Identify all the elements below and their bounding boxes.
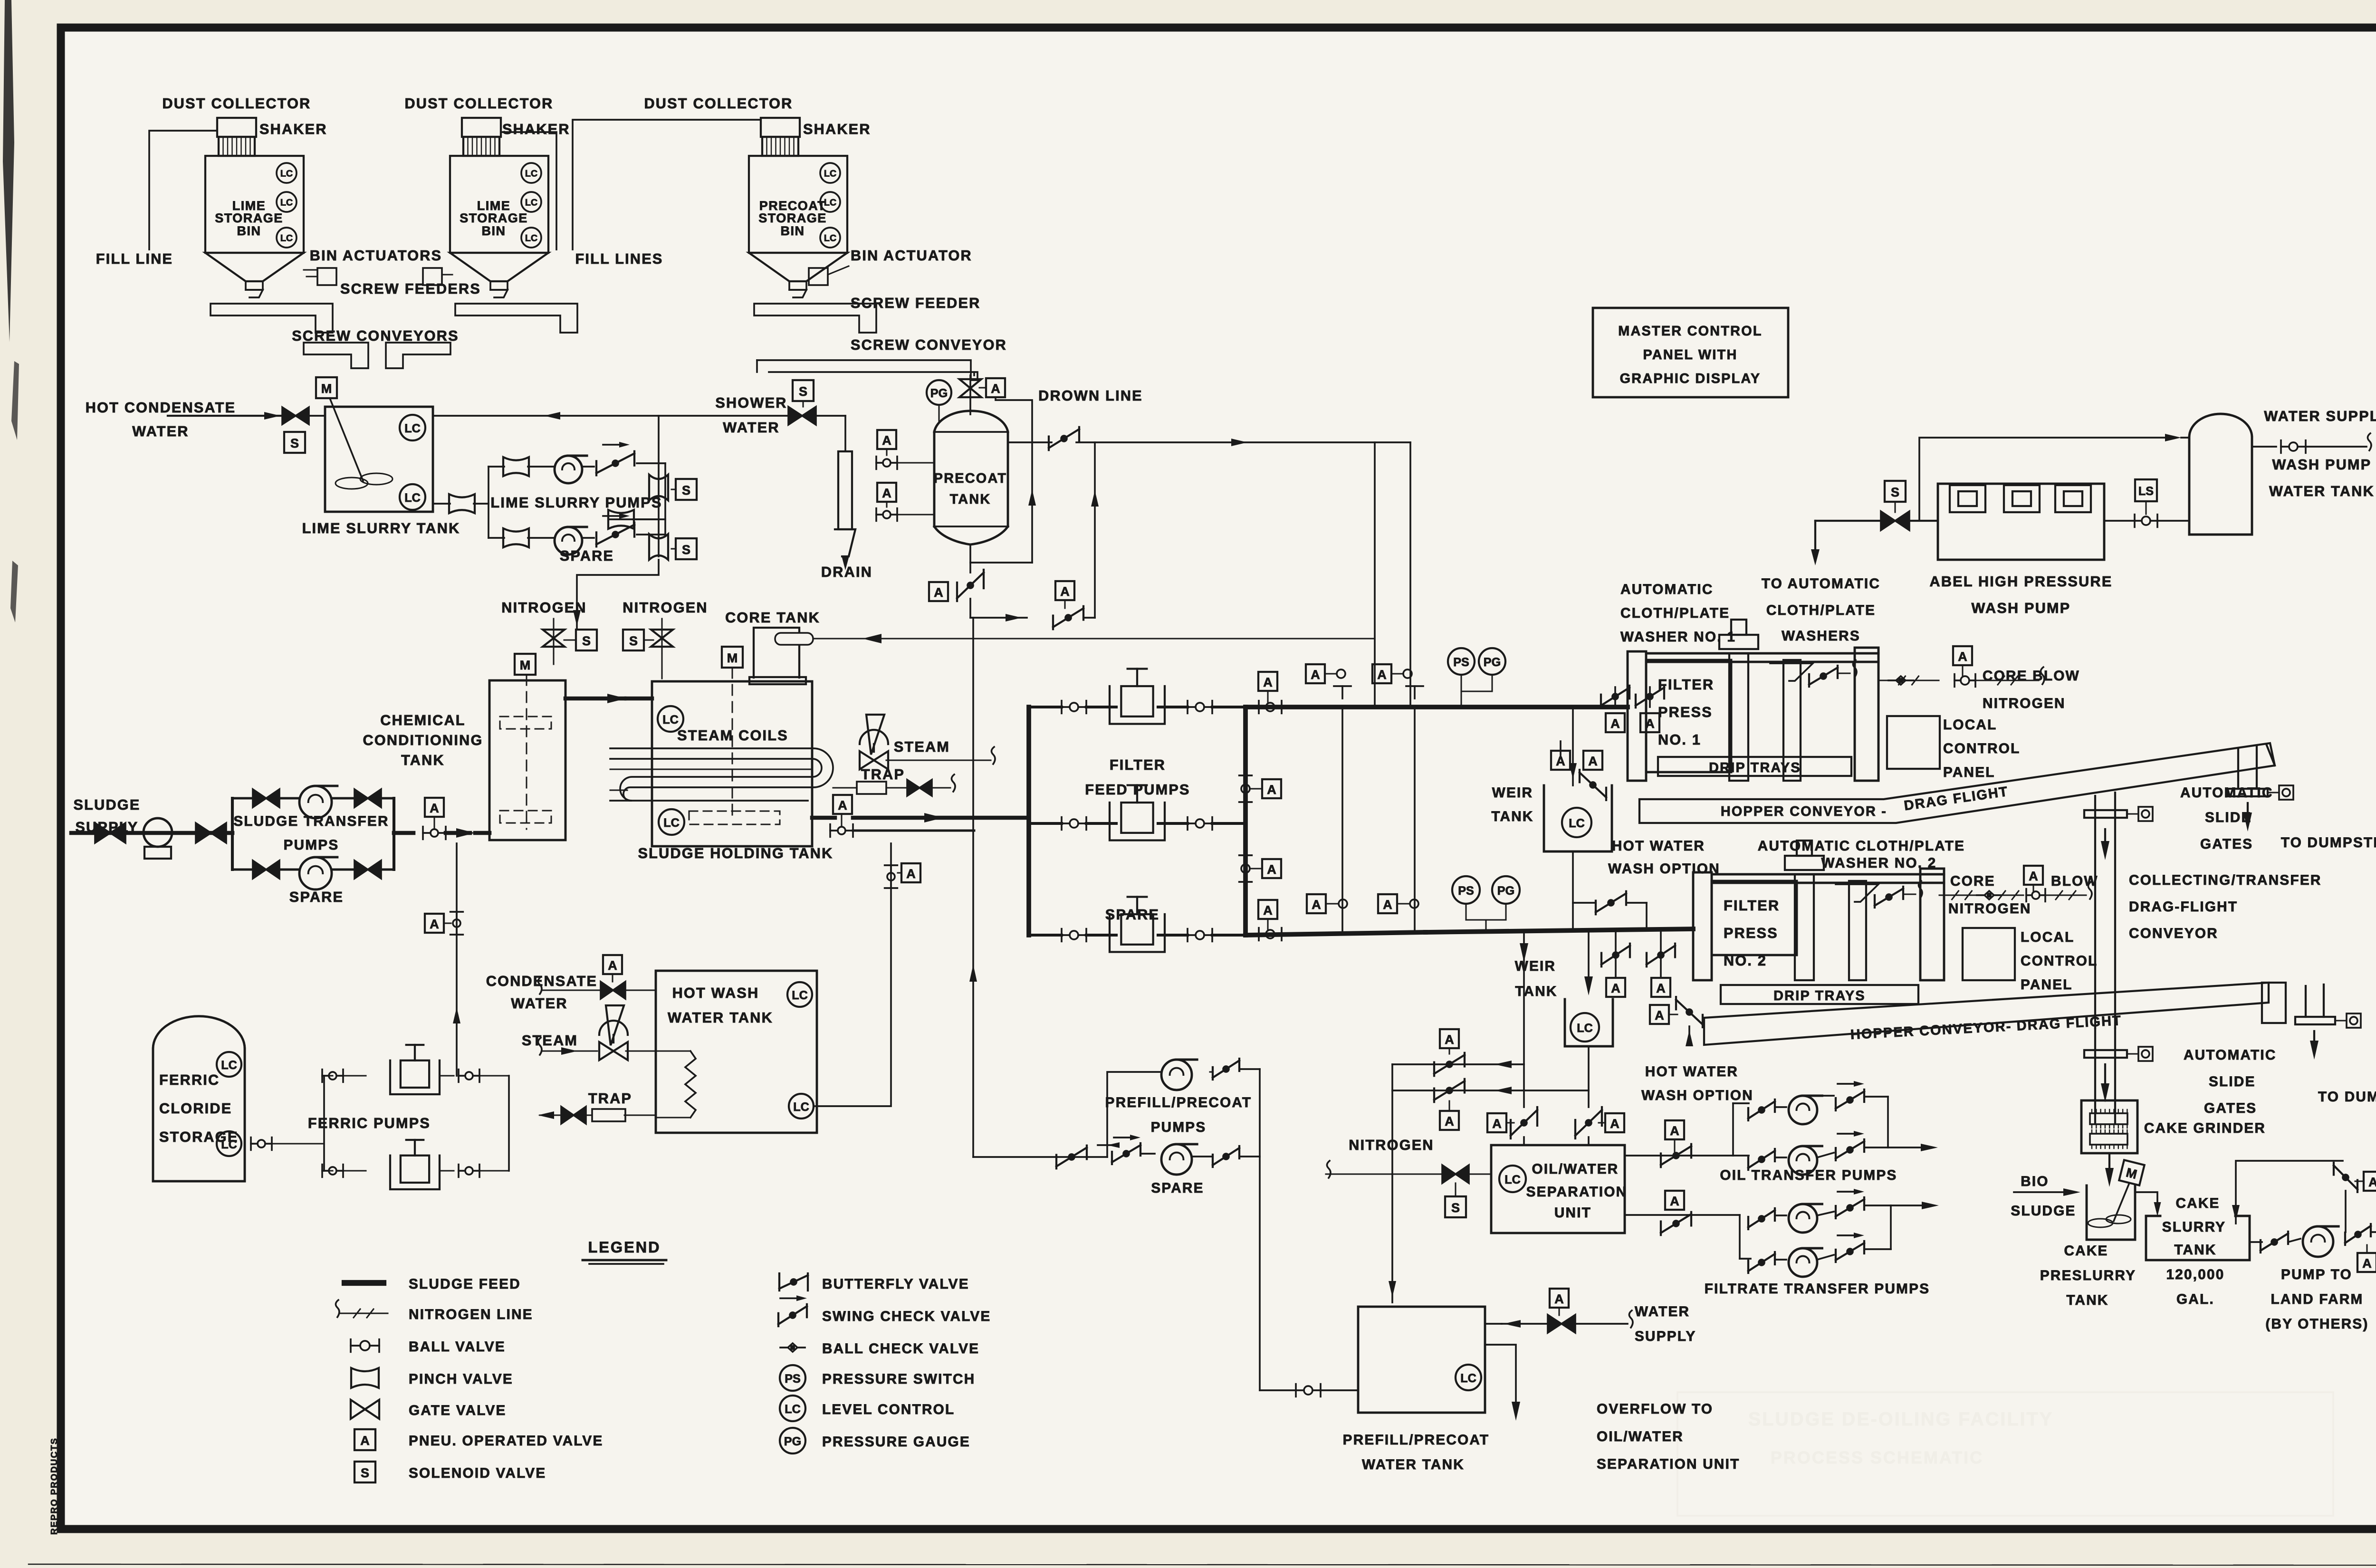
svg-text:TANK: TANK <box>2174 1242 2216 1258</box>
svg-text:A: A <box>2029 869 2038 883</box>
hot wash LC top <box>787 982 812 1007</box>
holding tank LC bottom <box>659 809 684 835</box>
svg-text:A: A <box>1958 650 1967 664</box>
oil water separation unit <box>1491 1145 1625 1233</box>
legend ball valve <box>350 1339 352 1352</box>
svg-text:PANEL: PANEL <box>2021 977 2073 993</box>
lime slurry tank <box>325 407 433 512</box>
svg-text:NITROGEN LINE: NITROGEN LINE <box>409 1307 533 1322</box>
svg-text:CLORIDE: CLORIDE <box>159 1100 232 1117</box>
conditioning tank mixer M <box>515 654 536 675</box>
svg-text:SPARE: SPARE <box>289 889 344 905</box>
core blow nitrogen line 2 <box>1939 894 1984 896</box>
svg-text:NITROGEN: NITROGEN <box>1349 1137 1434 1153</box>
discharge to feed pumps thick line <box>860 817 927 818</box>
svg-text:LC: LC <box>663 816 680 830</box>
svg-text:STEAM: STEAM <box>522 1033 578 1049</box>
svg-text:CORE TANK: CORE TANK <box>725 610 820 626</box>
ghost title block <box>1677 1392 2333 1516</box>
svg-text:A: A <box>2362 1256 2372 1271</box>
transfer arrow to holding tank <box>565 697 624 701</box>
sludge holding tank <box>652 681 812 846</box>
svg-text:S: S <box>361 1466 369 1480</box>
svg-text:NO. 2: NO. 2 <box>1724 953 1767 969</box>
svg-text:BIN ACTUATOR: BIN ACTUATOR <box>851 248 972 264</box>
svg-text:NITROGEN: NITROGEN <box>1983 696 2066 711</box>
svg-text:WATER SUPPLY: WATER SUPPLY <box>2264 408 2376 424</box>
svg-text:PS: PS <box>785 1372 801 1386</box>
hot condensate gate valve <box>282 407 309 424</box>
svg-text:A: A <box>1554 1292 1564 1306</box>
transfer pumps discharge header <box>393 798 395 870</box>
slurry pump suction <box>2250 1241 2262 1243</box>
svg-text:OIL/WATER: OIL/WATER <box>1532 1161 1619 1177</box>
svg-text:GATES: GATES <box>2200 836 2253 852</box>
conveyor 2 right end cap <box>2262 983 2286 1023</box>
press 1 closing screw <box>1719 635 1758 649</box>
weir tank 1 feed <box>1572 707 1574 785</box>
hot wash LC bottom <box>789 1094 814 1119</box>
svg-text:DUST COLLECTOR: DUST COLLECTOR <box>404 96 553 112</box>
ferric pump 1 discharge ball valve <box>458 1070 460 1082</box>
svg-text:PG: PG <box>784 1435 801 1448</box>
svg-text:BALL CHECK VALVE: BALL CHECK VALVE <box>822 1341 979 1357</box>
svg-text:CLOTH/PLATE: CLOTH/PLATE <box>1766 602 1876 618</box>
svg-text:UNIT: UNIT <box>1554 1205 1591 1221</box>
recirculation into slurry tank <box>2236 1161 2343 1224</box>
svg-text:A: A <box>1445 1114 1454 1128</box>
svg-text:S: S <box>682 483 690 497</box>
fill lines to bins 2-3 <box>501 132 556 249</box>
OWS LC <box>1499 1166 1526 1192</box>
svg-text:LC: LC <box>525 169 537 179</box>
svg-text:LC: LC <box>1577 1022 1593 1035</box>
storage bin precoat body <box>749 156 847 253</box>
svg-text:OIL TRANSFER PUMPS: OIL TRANSFER PUMPS <box>1720 1167 1897 1183</box>
svg-text:A: A <box>1377 668 1387 682</box>
dumpster chute 1 <box>2237 749 2239 789</box>
svg-text:CONTROL: CONTROL <box>2021 953 2098 969</box>
svg-text:CAKE GRINDER: CAKE GRINDER <box>2144 1120 2266 1136</box>
shower water return line <box>433 415 788 417</box>
svg-text:PREFILL/PRECOAT: PREFILL/PRECOAT <box>1105 1095 1252 1110</box>
holding tank sparger dashed <box>689 811 780 824</box>
svg-text:FILL LINES: FILL LINES <box>575 251 663 267</box>
svg-text:SLUDGE DE-OILING FACILITY: SLUDGE DE-OILING FACILITY <box>1748 1409 2053 1430</box>
sludge transfer pump 1 <box>299 786 332 818</box>
local control panel 2 <box>1963 928 2015 980</box>
wash return lines to prefill <box>1392 1063 1524 1065</box>
legend pinch valve <box>351 1368 379 1388</box>
svg-text:TANK: TANK <box>2066 1292 2108 1308</box>
ferric tank LC bottom <box>217 1131 241 1156</box>
svg-text:CORE BLOW: CORE BLOW <box>1983 668 2080 684</box>
legend butterfly valve <box>778 1273 780 1291</box>
svg-text:CONTROL: CONTROL <box>1943 741 2021 756</box>
svg-text:LC: LC <box>221 1059 237 1072</box>
precoat recirculation risers <box>1374 442 1376 705</box>
oil transfer pumps from OWS <box>1625 1155 1733 1157</box>
svg-text:LC: LC <box>1460 1372 1476 1385</box>
bin level control circles <box>820 163 840 183</box>
hopper conveyor 2 drag flight <box>1704 983 2269 1045</box>
solenoid box S <box>284 432 305 453</box>
chemical conditioning tank <box>489 680 565 840</box>
svg-text:A: A <box>430 917 439 931</box>
wash riser 1 <box>1341 707 1343 934</box>
svg-text:A: A <box>1267 862 1276 877</box>
land farm pump discharge <box>2344 1233 2346 1245</box>
press 1 wash funnel <box>1770 663 1813 681</box>
svg-text:BALL VALVE: BALL VALVE <box>409 1339 506 1355</box>
svg-text:LEVEL CONTROL: LEVEL CONTROL <box>822 1402 955 1417</box>
svg-text:GATES: GATES <box>2204 1100 2257 1116</box>
feed pump suction manifold <box>1026 707 1031 935</box>
prefill suction from tank <box>1295 1384 1297 1397</box>
svg-text:PUMPS: PUMPS <box>1151 1119 1207 1135</box>
filtrate pump 2 branch <box>1747 1261 1749 1273</box>
press 1 follower plate <box>1783 660 1801 781</box>
screw conveyor 2 <box>386 343 450 368</box>
svg-text:DRIP TRAYS: DRIP TRAYS <box>1773 988 1866 1004</box>
svg-text:HOT WASH: HOT WASH <box>672 985 759 1001</box>
legend solenoid valve <box>354 1462 375 1482</box>
recirc check valve <box>2333 1163 2335 1175</box>
svg-text:S: S <box>799 384 807 399</box>
svg-text:LC: LC <box>824 169 836 179</box>
trap line <box>833 787 857 788</box>
svg-text:PANEL: PANEL <box>1943 765 1995 780</box>
left edge scan streak <box>3 0 14 342</box>
svg-text:A: A <box>882 486 891 500</box>
svg-text:TRAP: TRAP <box>588 1090 632 1107</box>
svg-text:STEAM COILS: STEAM COILS <box>677 727 788 744</box>
PS PG gauges press 1 <box>1448 648 1475 675</box>
nitrogen valve 2 <box>623 630 644 650</box>
transfer pump 2 gate <box>253 860 279 879</box>
svg-text:WASHER NO. 2: WASHER NO. 2 <box>1821 855 1936 871</box>
bin level control circles <box>277 163 297 183</box>
oil pump 2 branch <box>1747 1157 1749 1170</box>
svg-text:A: A <box>1656 981 1666 995</box>
filtrate pump 1 branch <box>1747 1217 1749 1229</box>
abel high pressure wash pump <box>1938 484 2104 560</box>
svg-text:PRESLURRY: PRESLURRY <box>2040 1268 2136 1283</box>
svg-text:DUST COLLECTOR: DUST COLLECTOR <box>162 96 311 112</box>
slide gate 1 <box>2084 810 2127 818</box>
conditioning tank agitator dashed <box>526 675 527 829</box>
branch1 suction ball valve <box>1061 701 1063 714</box>
legend sludge feed <box>345 1280 383 1286</box>
local control panel 1 <box>1887 716 1940 769</box>
holding tank discharge line <box>812 816 835 820</box>
feed pump branch 1 line <box>1029 706 1062 708</box>
filtrate manifold <box>1739 1215 1741 1259</box>
svg-text:AUTOMATIC: AUTOMATIC <box>1620 582 1714 597</box>
svg-text:SLUDGE TRANSFER: SLUDGE TRANSFER <box>233 813 389 829</box>
feed pump branch 2 line <box>1029 822 1062 825</box>
branch1 discharge ball valve <box>1187 701 1188 714</box>
screw feeder <box>754 304 876 333</box>
weir tank 2 <box>1565 999 1613 1046</box>
svg-text:HOT WATER: HOT WATER <box>1612 838 1705 854</box>
supply gate valve 1 <box>95 823 125 843</box>
svg-text:TANK: TANK <box>1515 984 1557 999</box>
header1 A ball valve <box>1258 672 1277 691</box>
svg-text:LC: LC <box>793 1100 809 1114</box>
svg-text:AUTOMATIC: AUTOMATIC <box>2184 1047 2277 1063</box>
land farm pump <box>2303 1226 2333 1257</box>
svg-text:SPARE: SPARE <box>1105 907 1159 923</box>
svg-text:S: S <box>1891 485 1899 499</box>
press 1 blow check valve <box>1808 674 1810 687</box>
sludge transfer spare pump <box>299 857 332 889</box>
svg-text:A: A <box>1267 783 1276 797</box>
nitrogen valve 1 <box>553 619 554 653</box>
ferric riser A valve <box>425 914 444 933</box>
svg-text:BIN: BIN <box>781 224 805 238</box>
svg-text:PRESS: PRESS <box>1724 925 1778 941</box>
preslurry to slurry arrows <box>2135 1192 2157 1209</box>
svg-text:TANK: TANK <box>401 752 445 768</box>
svg-text:A: A <box>882 433 891 448</box>
to washers arrow <box>1814 521 1816 561</box>
precoat bypass line <box>996 397 1032 563</box>
ferric injection riser <box>456 843 458 1076</box>
wash pump suction line <box>1815 520 1882 522</box>
svg-text:A: A <box>1670 1194 1679 1208</box>
svg-text:M: M <box>520 658 531 672</box>
weir tank 1 LC <box>1562 808 1591 837</box>
transfer pump 1 discharge gate <box>354 789 381 807</box>
svg-text:HOT CONDENSATE: HOT CONDENSATE <box>86 400 236 416</box>
LS level switch <box>2135 479 2157 501</box>
ferric pumps discharge <box>508 1076 510 1171</box>
legend swing check valve <box>777 1313 779 1326</box>
svg-text:FILL LINE: FILL LINE <box>96 251 173 267</box>
svg-text:SCREW CONVEYORS: SCREW CONVEYORS <box>292 328 459 344</box>
manifold isolation ball A upper <box>1239 774 1252 776</box>
cake slurry tank <box>2146 1216 2250 1260</box>
transfer discharge A valve <box>425 798 444 817</box>
svg-text:LC: LC <box>404 422 421 435</box>
svg-text:WATER: WATER <box>511 995 567 1012</box>
press 2 feed header <box>1245 932 1426 935</box>
wash riser stubs lower <box>1307 894 1326 913</box>
svg-text:OVERFLOW TO: OVERFLOW TO <box>1597 1401 1713 1417</box>
prefill pump 1 branch <box>973 1156 1107 1158</box>
lime slurry tank LC top <box>400 415 425 440</box>
svg-text:A: A <box>1383 898 1392 912</box>
filter feed pump 1 <box>1110 686 1165 724</box>
water supply ball valve <box>2252 446 2276 448</box>
svg-text:GATE VALVE: GATE VALVE <box>409 1403 507 1418</box>
feed pump branch 3 line <box>1029 934 1062 937</box>
precoat bottom A valve <box>929 582 948 601</box>
weir tank 1 <box>1544 785 1612 851</box>
precoat tank <box>934 411 1008 545</box>
PS PG gauges press 2 <box>1452 876 1480 904</box>
steam supply control valve <box>866 715 884 755</box>
svg-text:PREFILL/PRECOAT: PREFILL/PRECOAT <box>1343 1432 1490 1448</box>
svg-text:A: A <box>1060 584 1070 599</box>
svg-text:S: S <box>682 543 690 557</box>
svg-text:TO AUTOMATIC: TO AUTOMATIC <box>1762 576 1880 592</box>
svg-text:LC: LC <box>404 491 421 505</box>
core blow nitrogen line 1 <box>1878 679 1939 681</box>
svg-text:PUMPS: PUMPS <box>284 837 339 853</box>
filtrate pumps from OWS <box>1625 1214 1740 1216</box>
svg-text:DROWN LINE: DROWN LINE <box>1038 388 1143 404</box>
press 2 wash funnel <box>1836 884 1878 902</box>
svg-text:A: A <box>430 801 439 815</box>
svg-text:S: S <box>1451 1201 1460 1215</box>
press 1 wash option valves <box>1614 687 1616 707</box>
hot wash riser A valve <box>901 863 920 882</box>
svg-text:PS: PS <box>1453 656 1469 669</box>
svg-text:PRESSURE GAUGE: PRESSURE GAUGE <box>822 1434 970 1450</box>
svg-text:AUTOMATIC CLOTH/PLATE: AUTOMATIC CLOTH/PLATE <box>1758 838 1965 854</box>
wash supply riser <box>1919 438 2172 521</box>
bin actuator 3 <box>809 268 828 285</box>
svg-text:STORAGE: STORAGE <box>215 211 283 225</box>
svg-text:NITROGEN: NITROGEN <box>501 600 586 616</box>
prefill precoat water tank <box>1358 1307 1485 1413</box>
svg-text:NITROGEN: NITROGEN <box>1948 901 2031 917</box>
precoat tank bottom outlet <box>969 545 971 573</box>
pinch valve pump 1 suction <box>503 457 529 476</box>
steam coils serpentine <box>610 748 833 801</box>
svg-text:A: A <box>1312 898 1321 912</box>
svg-text:DRAIN: DRAIN <box>821 564 872 580</box>
svg-text:SHAKER: SHAKER <box>502 121 570 137</box>
svg-text:SLUDGE FEED: SLUDGE FEED <box>409 1276 521 1292</box>
svg-text:A: A <box>1610 717 1620 731</box>
ferric metering pump 2 <box>390 1156 440 1189</box>
svg-text:A: A <box>1263 675 1273 689</box>
svg-text:PRESSURE SWITCH: PRESSURE SWITCH <box>822 1371 975 1387</box>
legend pneu operated valve <box>354 1429 375 1450</box>
filter press no 2 frame <box>1693 872 1712 980</box>
svg-text:FILTRATE TRANSFER PUMPS: FILTRATE TRANSFER PUMPS <box>1705 1281 1930 1297</box>
svg-text:WEIR: WEIR <box>1492 785 1533 801</box>
discharge A valve <box>833 795 852 814</box>
slide gate 2 chute <box>2094 1028 2096 1123</box>
svg-text:TO DUMPSTER: TO DUMPSTER <box>2318 1089 2376 1105</box>
svg-text:WASH PUMP: WASH PUMP <box>2272 457 2372 473</box>
svg-text:ABEL HIGH PRESSURE: ABEL HIGH PRESSURE <box>1929 574 2112 590</box>
svg-text:LC: LC <box>792 989 808 1002</box>
svg-text:LC: LC <box>1569 817 1585 830</box>
svg-text:SLUDGE HOLDING TANK: SLUDGE HOLDING TANK <box>638 845 834 861</box>
svg-text:A: A <box>608 958 617 973</box>
svg-text:GAL.: GAL. <box>2176 1291 2214 1307</box>
svg-text:A: A <box>2368 1175 2376 1189</box>
svg-text:FILTER: FILTER <box>1724 898 1780 914</box>
svg-text:A: A <box>934 585 943 600</box>
svg-text:STORAGE: STORAGE <box>758 211 827 225</box>
hopper conveyor 1 drag flight <box>1639 743 2275 823</box>
svg-text:CORE: CORE <box>1950 873 1995 889</box>
press 1 feed header <box>1245 705 1628 709</box>
shower solenoid S <box>793 380 814 401</box>
svg-text:REPRO PRODUCTS: REPRO PRODUCTS <box>49 1437 59 1535</box>
prefill tank overflow <box>1485 1345 1516 1405</box>
svg-text:BUTTERFLY VALVE: BUTTERFLY VALVE <box>822 1276 969 1292</box>
filter feed spare pump <box>1110 914 1165 952</box>
ferric pumps loop <box>323 1076 325 1171</box>
svg-text:PUMP TO: PUMP TO <box>2281 1267 2352 1282</box>
svg-text:M: M <box>321 382 332 396</box>
press 2 follower plate <box>1849 881 1866 980</box>
preslurry mixer M <box>2119 1160 2144 1185</box>
svg-text:MASTER CONTROL: MASTER CONTROL <box>1618 324 1762 339</box>
weir tank 2 feed arrow <box>1588 932 1590 981</box>
press 2 hot wash inlet <box>1650 1005 1669 1024</box>
bin hopper <box>450 253 548 281</box>
svg-text:A: A <box>1645 717 1655 731</box>
svg-text:LC: LC <box>280 198 293 208</box>
prefill discharge <box>1259 1069 1261 1390</box>
grinder discharge arrow <box>2108 1153 2110 1174</box>
transfer pump 1 gate <box>253 789 279 807</box>
svg-text:WATER TANK: WATER TANK <box>2269 483 2375 499</box>
shaker housing <box>761 118 800 137</box>
svg-text:SPARE: SPARE <box>560 548 614 564</box>
svg-text:S: S <box>582 634 591 648</box>
svg-text:SCREW CONVEYOR: SCREW CONVEYOR <box>851 337 1007 353</box>
dumpster drop 2 <box>2305 986 2307 1017</box>
cake grinder box <box>2081 1100 2137 1153</box>
svg-text:GRAPHIC DISPLAY: GRAPHIC DISPLAY <box>1620 371 1761 386</box>
drown line from precoat tank <box>1008 441 1052 443</box>
oil pumps manifold <box>1732 1103 1734 1156</box>
svg-text:SLURRY: SLURRY <box>2162 1219 2226 1235</box>
filter feed pump 2 <box>1110 803 1165 840</box>
svg-text:A: A <box>1610 1117 1619 1131</box>
svg-text:A: A <box>1492 1117 1502 1131</box>
legend pressure switch <box>780 1365 805 1391</box>
svg-text:PS: PS <box>1458 884 1474 898</box>
hot wash water tank <box>656 971 817 1133</box>
svg-text:CLOTH/PLATE: CLOTH/PLATE <box>1620 605 1730 621</box>
svg-text:LC: LC <box>525 198 537 208</box>
svg-text:A: A <box>991 382 1000 396</box>
storage bin lime body <box>205 156 304 253</box>
svg-text:A: A <box>1611 981 1620 995</box>
ferric tank LC top <box>217 1052 241 1077</box>
lime slurry tank LC bottom <box>400 484 425 510</box>
slurry line down to conditioning tank <box>577 560 659 628</box>
svg-text:LC: LC <box>662 713 679 727</box>
svg-text:COLLECTING/TRANSFER: COLLECTING/TRANSFER <box>2129 872 2322 888</box>
svg-text:S: S <box>629 634 638 648</box>
ferric tank outlet ball valve <box>250 1138 252 1150</box>
svg-text:A: A <box>838 798 847 813</box>
tank outlet ball valve <box>2134 515 2136 527</box>
svg-text:A: A <box>1445 1033 1454 1047</box>
screw conveyor 1 <box>304 343 368 368</box>
svg-text:A: A <box>1588 754 1598 768</box>
screw feeder <box>455 304 577 333</box>
legend nitrogen line <box>339 1312 388 1314</box>
mixer propeller <box>335 478 368 489</box>
bio sludge arrow <box>2014 1191 2076 1193</box>
ferric pump 2 suction ball valve <box>321 1165 323 1177</box>
svg-text:OIL/WATER: OIL/WATER <box>1597 1429 1684 1444</box>
bin actuator 1 <box>317 268 336 285</box>
drain standpipe <box>844 416 846 451</box>
